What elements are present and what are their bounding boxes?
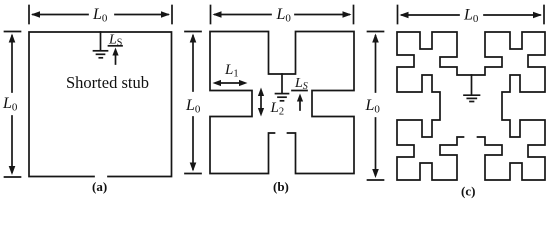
Ls arrow (a) — [115, 52, 117, 64]
fractal outline (b), open at bottom-notch gap — [210, 32, 354, 174]
dimension L0 left (b): tick bottom — [185, 173, 201, 175]
dimension L0 left (c): arrow line lower — [375, 118, 377, 175]
dimension L0 top: arrowhead left — [31, 11, 40, 18]
dimension L0 left: arrowhead up — [9, 34, 16, 43]
dimension L0 top: arrowhead right — [161, 11, 170, 18]
shorted stub line (a) — [100, 32, 102, 50]
dimension L0 left (c): tick bottom — [368, 179, 384, 181]
dimension L0 left (b): arrowhead down — [190, 163, 197, 172]
dimension L0 top: arrow line left — [33, 14, 88, 16]
dimension L0 top: arrowhead right — [533, 12, 542, 19]
dimension L0 top: arrowhead left — [400, 12, 409, 19]
dimension L0 left (b): tick top — [185, 31, 201, 33]
dimension L0 top: arrow line right — [295, 14, 349, 16]
dimension L0 top: arrow line right — [115, 14, 168, 16]
dimension L0 left: arrowhead down — [9, 166, 16, 175]
dimension L0 left (c): tick top — [368, 31, 384, 33]
dimension L0 left (b): arrow line lower — [192, 117, 194, 169]
dimension L0 left (b): arrow line upper — [192, 36, 194, 91]
dimension L0 top: arrow line left — [215, 14, 271, 16]
dimension L0 left (c): arrow line upper — [375, 36, 377, 92]
svg-text:(b): (b) — [273, 179, 289, 194]
dimension L0 left (c): arrowhead down — [372, 169, 379, 178]
shorted stub line (b) — [281, 74, 283, 93]
svg-text:Shorted stub: Shorted stub — [66, 73, 149, 92]
dimension L0 top: tick left — [28, 6, 30, 24]
fractal outline (c), open at bottom-notch gap — [397, 32, 545, 180]
dimension L0 left: tick bottom — [5, 176, 21, 178]
dimension L0 top: arrowhead left — [213, 11, 222, 18]
dimension L0 left (c): arrowhead up — [372, 34, 379, 43]
dimension L0 top: arrow line left — [402, 14, 459, 16]
ground symbol (c) — [464, 94, 480, 96]
ground symbol (a) — [94, 50, 108, 52]
L1 dimension arrow (b) — [216, 82, 244, 84]
dimension L0 left (b): arrowhead up — [190, 34, 197, 43]
ground symbol (b) — [276, 93, 289, 95]
Ls arrow (b) — [299, 98, 301, 110]
L2 dimension arrow (b) — [260, 92, 262, 112]
dimension L0 left: arrow line upper — [11, 36, 13, 92]
Ls dimension underline (a) — [109, 45, 123, 47]
dimension L0 top: arrow line right — [484, 14, 540, 16]
dimension L0 top: tick left — [397, 6, 399, 24]
Ls dimension underline (b) — [292, 90, 307, 92]
svg-text:(a): (a) — [92, 179, 107, 194]
square outline (a) with bottom gap — [29, 32, 172, 177]
shorted stub line (c) — [471, 75, 473, 95]
dimension L0 left: tick top — [5, 31, 21, 33]
svg-text:(c): (c) — [461, 184, 475, 199]
dimension L0 left: arrow line lower — [11, 116, 13, 172]
dimension L0 top: tick right — [171, 6, 173, 24]
dimension L0 top: tick right — [543, 6, 545, 24]
dimension L0 top: tick left — [210, 6, 212, 24]
dimension L0 top: arrowhead right — [343, 11, 352, 18]
dimension L0 top: tick right — [353, 6, 355, 24]
